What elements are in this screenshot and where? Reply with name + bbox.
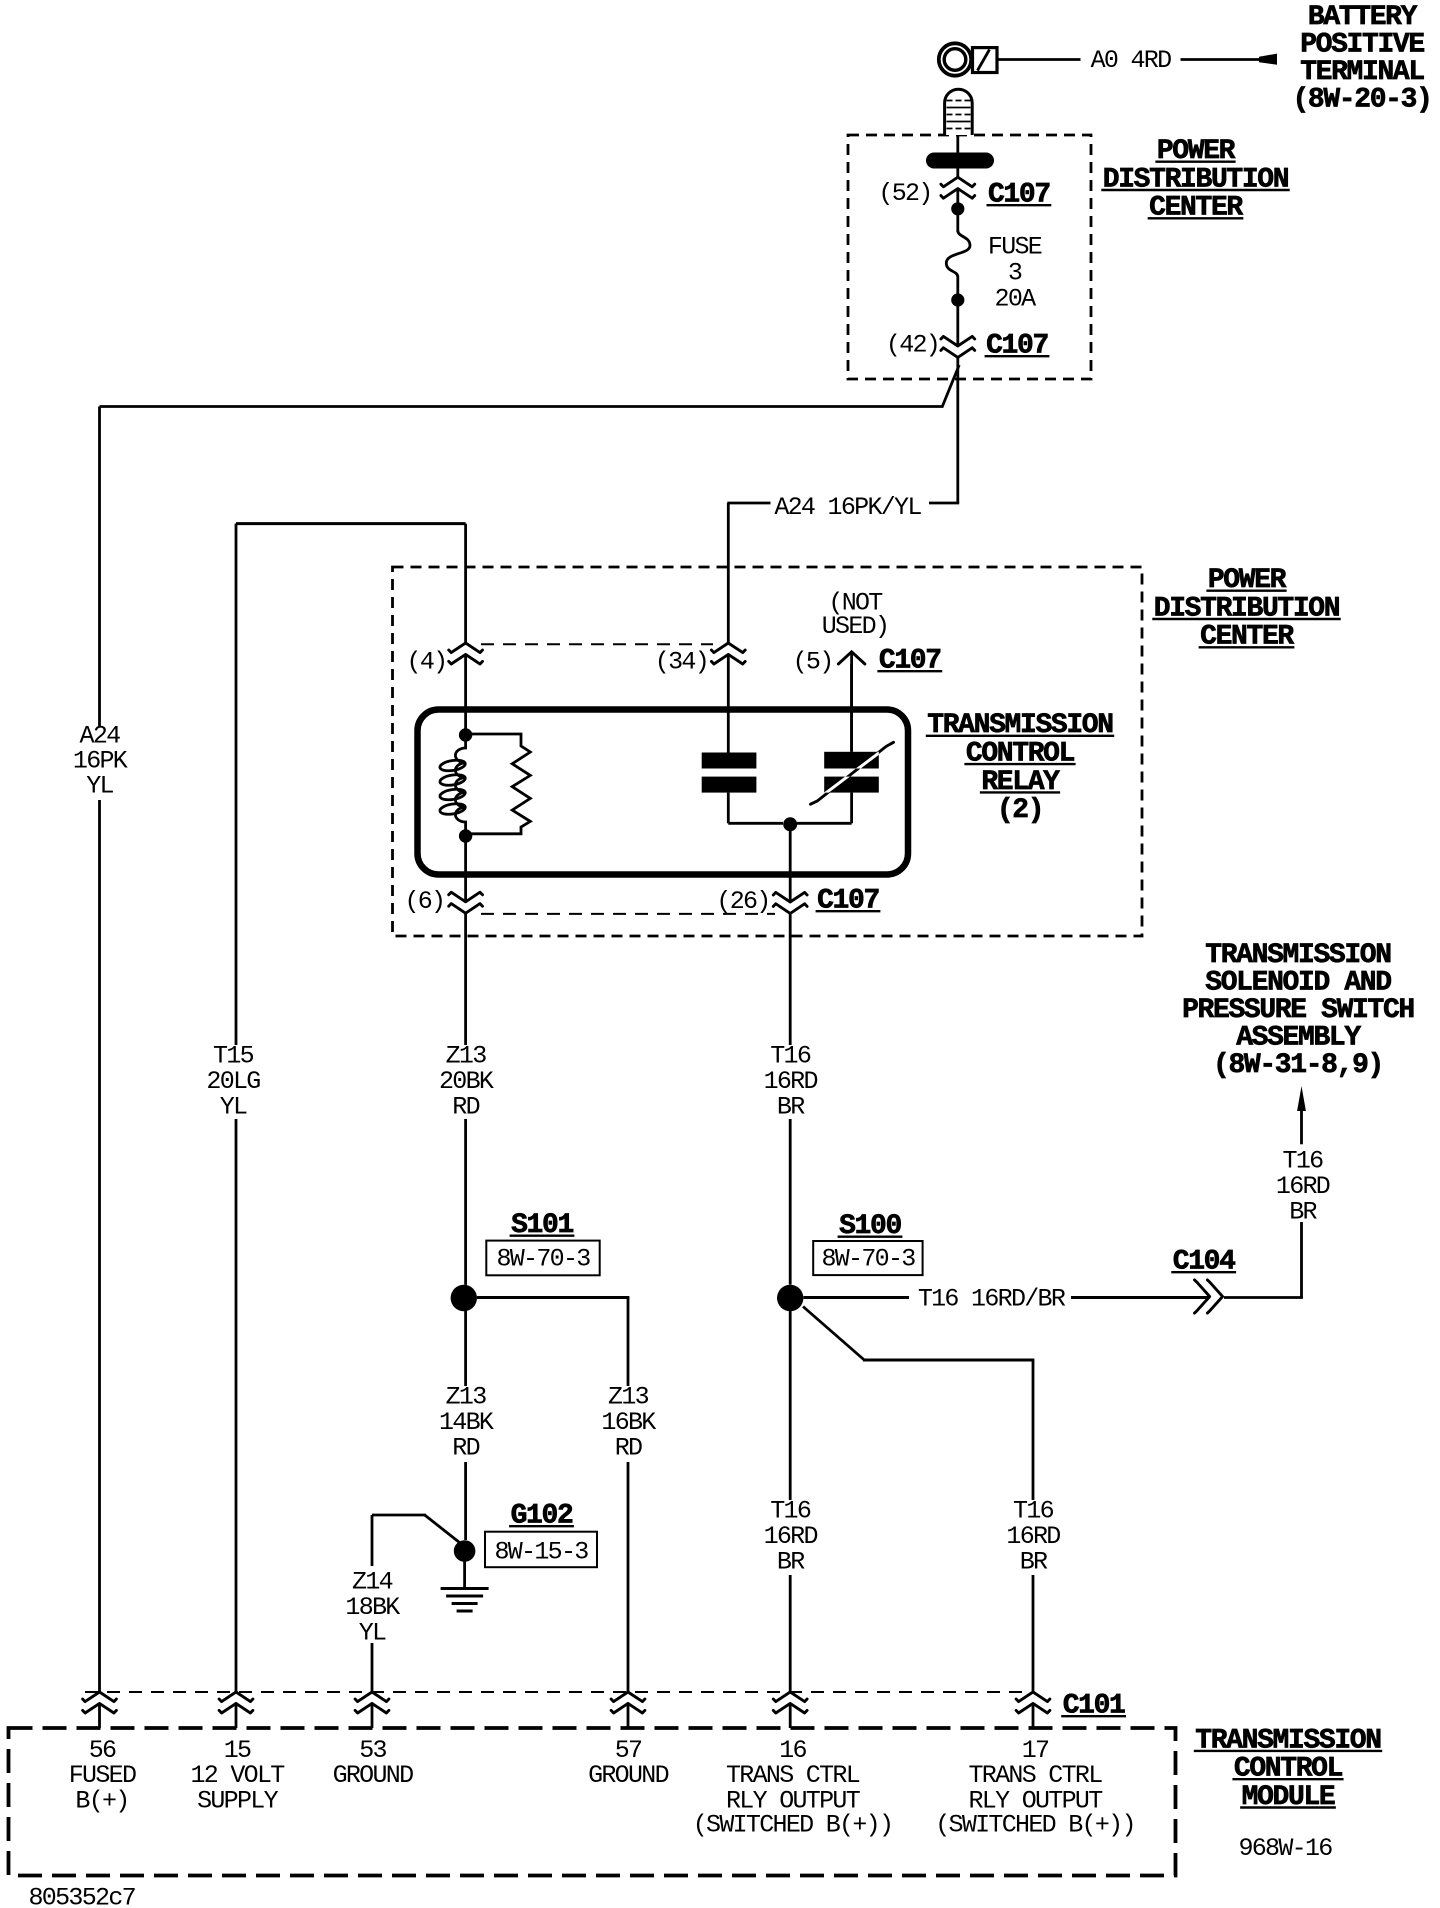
svg-text:BATTERY: BATTERY <box>1308 2 1418 33</box>
svg-text:RD: RD <box>452 1433 479 1462</box>
svg-text:(26): (26) <box>716 887 769 916</box>
svg-text:SOLENOID AND: SOLENOID AND <box>1205 968 1391 999</box>
svg-text:968W-16: 968W-16 <box>1238 1834 1332 1863</box>
svg-text:(6): (6) <box>404 887 444 916</box>
svg-text:(5): (5) <box>793 648 833 677</box>
svg-text:3: 3 <box>1008 259 1022 288</box>
svg-text:TERMINAL: TERMINAL <box>1300 57 1424 88</box>
svg-text:(4): (4) <box>407 648 447 677</box>
svg-text:TRANSMISSION: TRANSMISSION <box>1205 940 1390 971</box>
svg-text:BR: BR <box>1020 1548 1048 1577</box>
svg-text:POSITIVE: POSITIVE <box>1300 30 1424 61</box>
svg-text:SUPPLY: SUPPLY <box>197 1787 279 1816</box>
svg-text:(42): (42) <box>886 331 939 360</box>
svg-text:BR: BR <box>777 1548 805 1577</box>
svg-text:YL: YL <box>220 1093 247 1122</box>
svg-text:B(+): B(+) <box>75 1787 128 1816</box>
svg-text:RD: RD <box>452 1093 479 1122</box>
svg-text:PRESSURE SWITCH: PRESSURE SWITCH <box>1182 995 1414 1026</box>
svg-text:(34): (34) <box>655 648 708 677</box>
svg-text:(SWITCHED B(+)): (SWITCHED B(+)) <box>693 1811 893 1840</box>
svg-text:FUSE: FUSE <box>988 233 1042 262</box>
svg-text:USED): USED) <box>822 612 889 641</box>
svg-text:8W-15-3: 8W-15-3 <box>494 1538 588 1567</box>
svg-text:20A: 20A <box>995 285 1037 314</box>
svg-text:(SWITCHED B(+)): (SWITCHED B(+)) <box>935 1811 1135 1840</box>
svg-text:GROUND: GROUND <box>588 1761 669 1790</box>
svg-text:YL: YL <box>86 772 113 801</box>
svg-text:RD: RD <box>615 1433 642 1462</box>
svg-text:8W-70-3: 8W-70-3 <box>821 1245 915 1274</box>
svg-text:8W-70-3: 8W-70-3 <box>496 1245 590 1274</box>
svg-text:A0 4RD: A0 4RD <box>1091 46 1172 75</box>
svg-text:GROUND: GROUND <box>333 1761 414 1790</box>
svg-text:BR: BR <box>777 1093 805 1122</box>
svg-text:805352c7: 805352c7 <box>29 1884 136 1908</box>
svg-text:(8W-31-8,9): (8W-31-8,9) <box>1213 1050 1383 1081</box>
svg-text:(52): (52) <box>878 179 931 208</box>
svg-text:(8W-20-3): (8W-20-3) <box>1292 85 1431 116</box>
svg-text:(2): (2) <box>997 795 1043 826</box>
svg-text:ASSEMBLY: ASSEMBLY <box>1236 1023 1361 1054</box>
svg-text:BR: BR <box>1289 1198 1317 1227</box>
svg-text:A24 16PK/YL: A24 16PK/YL <box>774 493 921 522</box>
svg-text:T16 16RD/BR: T16 16RD/BR <box>918 1285 1066 1314</box>
